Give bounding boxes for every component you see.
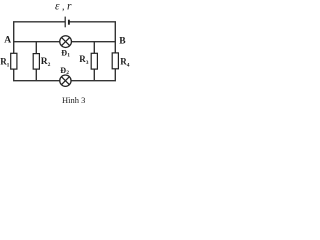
svg-text:1: 1: [67, 53, 70, 59]
wire bottom right (lamp D2 to corner): [71, 80, 116, 82]
lamp D1 (circle with X): [60, 36, 72, 48]
resistor R3 branch: [93, 42, 95, 81]
lamp D2 (circle with X): [60, 75, 71, 86]
svg-text:1: 1: [7, 62, 10, 68]
wire top-left horizontal (corner to battery long plate): [14, 22, 65, 54]
battery short plate (-): [68, 20, 70, 25]
resistor R1 (left branch, below A): [13, 53, 15, 80]
battery long plate (+): [64, 17, 66, 28]
svg-text:4: 4: [127, 62, 130, 68]
background: [0, 0, 134, 107]
svg-text:2: 2: [66, 70, 69, 76]
wire bottom left (corner to lamp D2): [13, 80, 60, 82]
svg-text:Đ: Đ: [61, 49, 67, 58]
svg-text:Đ: Đ: [60, 66, 66, 75]
svg-text:A: A: [4, 35, 11, 45]
svg-text:Hình 3: Hình 3: [62, 95, 85, 105]
svg-text:3: 3: [86, 60, 89, 66]
wire middle right (lamp D1 to B): [72, 41, 116, 43]
svg-text:2: 2: [48, 62, 51, 68]
svg-text:B: B: [119, 36, 126, 46]
resistor R2 branch: [35, 42, 37, 81]
svg-text:ε , r: ε , r: [55, 1, 72, 13]
resistor R4 (right branch, below B): [114, 53, 116, 81]
wire top-right horizontal (battery short plate to corner): [69, 22, 115, 53]
wire middle left (A to lamp D1): [14, 41, 60, 43]
